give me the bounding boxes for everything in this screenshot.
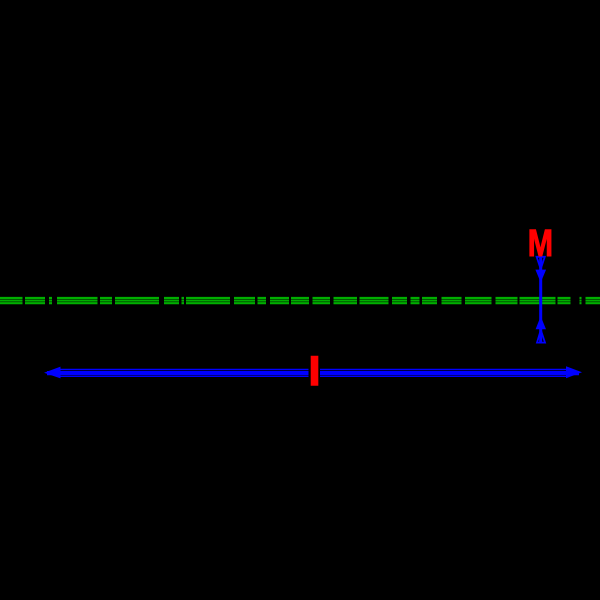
moment arrow: vertical stem through beam axis bbox=[539, 257, 542, 343]
wire: axis row 3 bbox=[0, 302, 600, 304]
wire: dim shaft left, thick middle row bbox=[47, 371, 309, 375]
moment arrowhead: top filled triangle pointing down bbox=[535, 270, 546, 283]
moment arrowhead: bottom filled triangle pointing up bbox=[536, 316, 546, 329]
wire: dim shaft right, thick middle row bbox=[320, 371, 579, 375]
wire: axis row 1 bbox=[0, 297, 600, 299]
wire: dim shaft left, thin top row bbox=[58, 369, 309, 371]
dimension line l (blue), triple-row shaft bbox=[47, 370, 579, 377]
svg-text:l: l bbox=[309, 352, 320, 394]
wire: dim shaft right, thin top row bbox=[320, 369, 568, 371]
beam axis centerline (green dash-dot), drawn as 3 stacked rows bbox=[0, 298, 600, 303]
wire: dim shaft left, thin bottom row bbox=[58, 375, 309, 377]
svg-text:M: M bbox=[528, 223, 553, 265]
wire: dim shaft right, thin bottom row bbox=[320, 375, 568, 377]
wire: axis row 2 bbox=[0, 300, 600, 302]
moment arrowhead: bottom outline triangle pointing up bbox=[537, 330, 545, 343]
arrowhead right of dimension line bbox=[566, 366, 582, 378]
arrowhead left of dimension line bbox=[44, 367, 61, 379]
moment arrowhead: top outline triangle pointing down bbox=[537, 257, 545, 269]
